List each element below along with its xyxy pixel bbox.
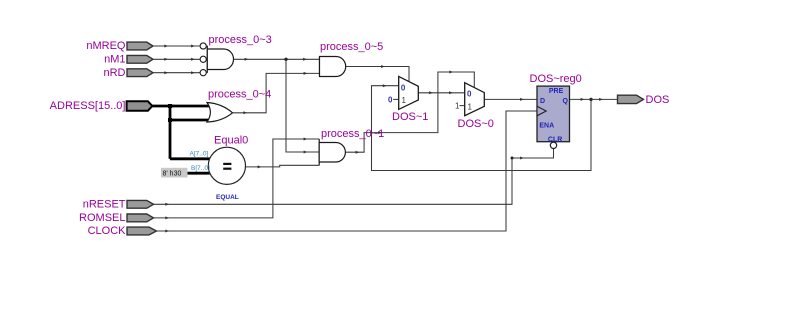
flip-flop DOS~reg0 bbox=[530, 73, 582, 144]
wire nMREQ to G1 bubble bbox=[153, 45, 200, 48]
wire ADRESS bus to Equal0 A input bbox=[170, 157, 210, 160]
input pin CLOCK bbox=[88, 225, 157, 237]
wire nM1 to G1 bubble bbox=[153, 58, 200, 61]
wire constant 8h30 bus to Equal0 B input bbox=[186, 172, 210, 175]
svg-text:nMREQ: nMREQ bbox=[86, 40, 126, 52]
input pin nRESET bbox=[83, 199, 154, 211]
svg-text:PRE: PRE bbox=[549, 88, 564, 95]
input pin nRD bbox=[103, 67, 153, 79]
svg-text:DOS~0: DOS~0 bbox=[458, 118, 494, 130]
wire DOS~reg0 Q to DOS pin bbox=[570, 98, 618, 101]
junction Q output feedback bbox=[589, 98, 592, 101]
wire DOS~1 out to DOS~0 in0 bbox=[418, 91, 464, 94]
svg-text:ADRESS[15..0]: ADRESS[15..0] bbox=[50, 100, 126, 112]
svg-text:Equal0: Equal0 bbox=[214, 135, 248, 147]
wire process_0~4 out to process_0~5 in2 bbox=[233, 72, 320, 114]
wire process_0~3 out branch to process_0~1 in2 bbox=[286, 59, 319, 153]
svg-text:Q: Q bbox=[563, 98, 569, 105]
svg-text:1: 1 bbox=[468, 103, 473, 112]
svg-text:EQUAL: EQUAL bbox=[216, 194, 239, 201]
svg-text:0: 0 bbox=[467, 90, 472, 99]
comparator Equal0 bbox=[208, 135, 248, 202]
wire CLOCK to DOS~reg0 clock bbox=[157, 111, 538, 233]
svg-text:nM1: nM1 bbox=[104, 54, 125, 66]
wire process_0~1 out to DOS~0 select bbox=[346, 71, 474, 154]
wire ADRESS bus to process_0~4 in1 bbox=[152, 105, 210, 108]
input pin nM1 bbox=[104, 54, 153, 66]
svg-text:8' h30: 8' h30 bbox=[163, 171, 182, 178]
AND gate process_0~1 bbox=[319, 128, 384, 166]
svg-text:1: 1 bbox=[455, 102, 460, 111]
wire process_0~3 out to process_0~5 in1 bbox=[234, 58, 320, 61]
inverter bubble process_0~3 input 3 bbox=[200, 70, 206, 76]
svg-text:nRESET: nRESET bbox=[83, 199, 126, 211]
svg-text:0: 0 bbox=[401, 83, 406, 92]
svg-text:ENA: ENA bbox=[539, 123, 554, 130]
junction ADRESS bus at process_0~4 input bbox=[168, 104, 172, 108]
svg-text:process_0~5: process_0~5 bbox=[320, 41, 383, 53]
wire nRD to G1 bubble bbox=[153, 71, 200, 74]
constant 8' h30 bbox=[161, 168, 188, 178]
svg-text:ROMSEL: ROMSEL bbox=[79, 212, 125, 224]
wire constant 0 stub to DOS~1 in1 bbox=[393, 98, 399, 100]
clock triangle DOS~reg0 bbox=[537, 106, 546, 116]
input pin ROMSEL bbox=[79, 212, 153, 224]
svg-text:process_0~4: process_0~4 bbox=[208, 89, 271, 101]
wire ROMSEL to process_0~1 in1 bbox=[154, 138, 320, 220]
input pin nMREQ bbox=[86, 40, 153, 52]
svg-text:DOS~1: DOS~1 bbox=[392, 111, 428, 123]
svg-text:DOS~reg0: DOS~reg0 bbox=[530, 73, 582, 85]
svg-text:process_0~1: process_0~1 bbox=[321, 128, 384, 140]
wire constant 1 stub to DOS~0 in1 bbox=[460, 105, 465, 107]
OR gate process_0~4 bbox=[207, 89, 271, 123]
mux DOS~0 bbox=[458, 83, 494, 130]
svg-text:1: 1 bbox=[402, 96, 407, 105]
wire DOS~0 out to DOS~reg0 D bbox=[484, 98, 537, 101]
mux DOS~1 bbox=[392, 76, 428, 123]
AND gate process_0~3 bbox=[207, 34, 271, 73]
AND gate process_0~5 bbox=[320, 41, 384, 77]
input pin ADRESS[15..0] bbox=[50, 100, 153, 112]
svg-text:A[7..0]: A[7..0] bbox=[190, 151, 209, 158]
output pin DOS bbox=[618, 94, 670, 106]
svg-text:process_0~3: process_0~3 bbox=[209, 34, 272, 46]
svg-text:B[7..0]: B[7..0] bbox=[191, 165, 210, 172]
wire ADRESS bus to process_0~4 in2 bbox=[170, 119, 211, 122]
inverter bubble process_0~3 input 2 bbox=[200, 56, 206, 62]
svg-text:CLOCK: CLOCK bbox=[88, 225, 127, 237]
inverter bubble process_0~3 input 1 bbox=[200, 43, 206, 49]
svg-text:nRD: nRD bbox=[103, 67, 125, 79]
junction ADRESS bus branch to Equal0 bbox=[168, 118, 172, 122]
wire feedback Q to DOS~1 in0 bbox=[372, 84, 592, 170]
wire Equal0 out to process_0~1 in3 bbox=[246, 165, 320, 168]
wire process_0~5 out to DOS~1 select bbox=[346, 65, 409, 82]
svg-text:DOS: DOS bbox=[646, 94, 670, 106]
svg-text:0: 0 bbox=[388, 95, 393, 104]
wire ADRESS bus vertical branch bbox=[169, 106, 172, 159]
svg-text:D: D bbox=[540, 98, 545, 105]
CLR inverter bubble DOS~reg0 bbox=[550, 142, 556, 148]
junction process_0~3 output branch bbox=[284, 58, 287, 61]
wire nRESET to DOS~reg0 CLR bbox=[154, 149, 554, 206]
